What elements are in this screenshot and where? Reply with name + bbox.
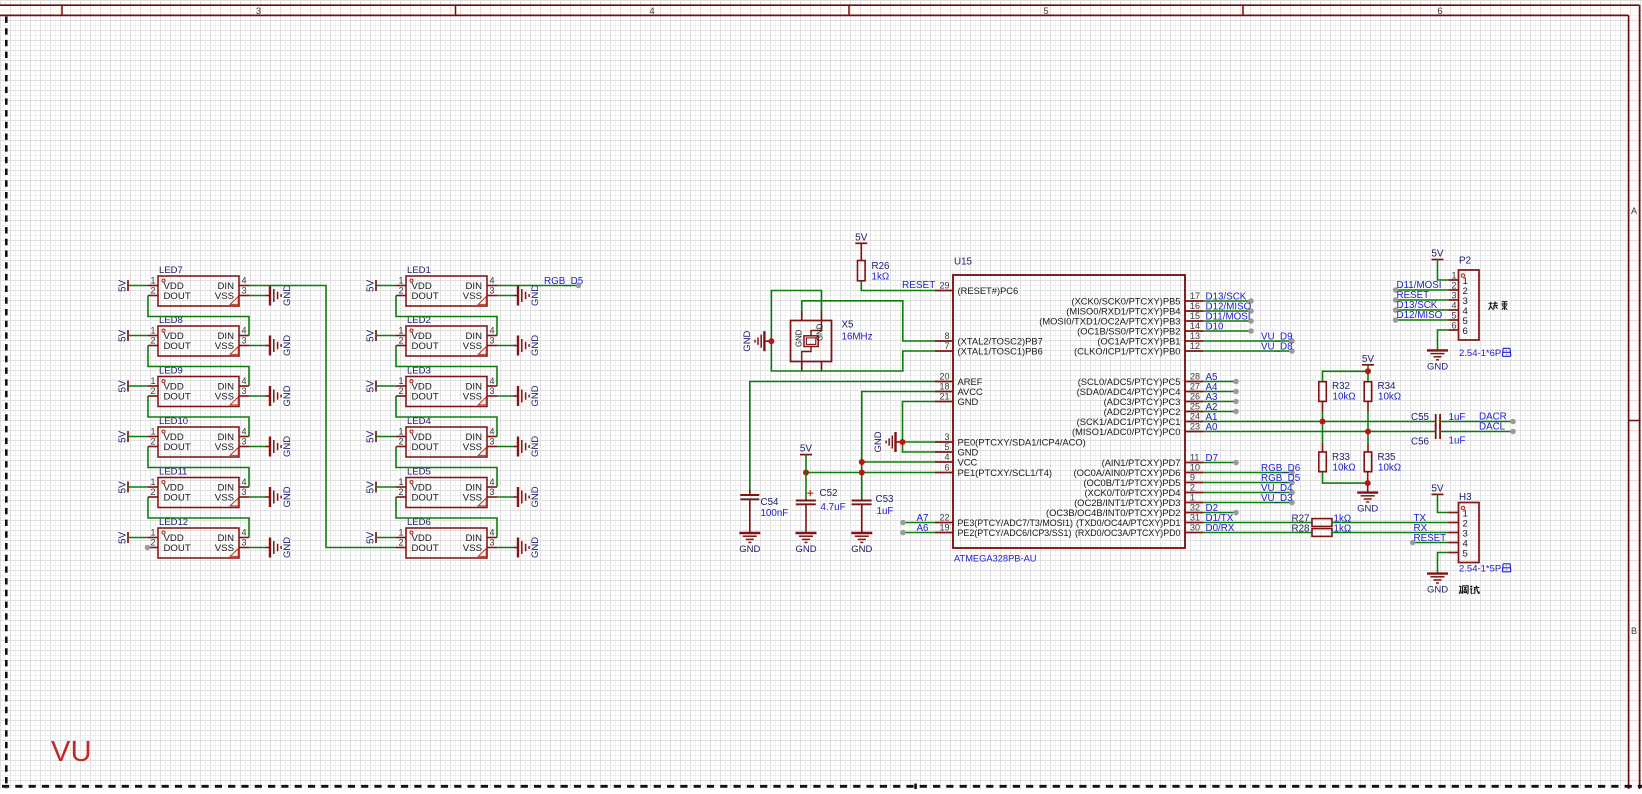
svg-text:(CLKO/ICP1/PTCXY)PB0: (CLKO/ICP1/PTCXY)PB0 (1074, 346, 1180, 356)
svg-text:2: 2 (150, 487, 155, 497)
svg-text:10kΩ: 10kΩ (1378, 392, 1401, 403)
gray dot A3 end (1233, 399, 1239, 405)
svg-text:1: 1 (150, 326, 155, 336)
svg-text:10: 10 (1190, 463, 1200, 473)
value label 2.54-1*6P-mu for P2 (1459, 348, 1511, 359)
svg-text:ATMEGA328PB-AU: ATMEGA328PB-AU (954, 554, 1037, 564)
svg-text:7: 7 (944, 341, 949, 351)
wire P2 pin6 to GND (1438, 330, 1449, 350)
U15 pin 29 (RESET#)PC6 (935, 281, 1018, 296)
value label 2.54-1*5P-mu for H3 (1459, 564, 1511, 575)
svg-text:D10: D10 (1206, 322, 1225, 333)
U15 pin 3 PE0(PTCXY/SDA1/ICP4/ACO) (935, 432, 1086, 447)
svg-text:RESET: RESET (902, 280, 935, 291)
wire net A0 from U15 pin23 to C56 (1203, 431, 1436, 433)
wire net D13/SCK (1203, 300, 1251, 302)
svg-text:VU_D3: VU_D3 (1261, 493, 1293, 504)
U15 pin 6 PE1(PTCXY/SCL1/T4) (935, 463, 1052, 478)
wire LED2 DOUT to LED3 DIN (396, 346, 497, 387)
wire 5V to LED9 VDD (128, 385, 148, 387)
svg-text:VSS: VSS (215, 392, 234, 403)
wire net A5 (1203, 381, 1236, 383)
svg-text:C52: C52 (820, 488, 838, 499)
wire 5V to LED12 VDD (128, 537, 148, 539)
wire LED1 DIN to RGB_D5 net stub (497, 285, 579, 287)
svg-text:3: 3 (242, 386, 247, 396)
svg-text:3: 3 (1451, 291, 1456, 301)
U15 pin 2 (XCK0/T0/PTCXY)PD4 (1084, 483, 1203, 498)
svg-text:VSS: VSS (463, 341, 482, 352)
svg-text:GND: GND (530, 486, 541, 507)
svg-text:3: 3 (242, 437, 247, 447)
U15 pin 23 (MISO1/ADC0/PTCY)PC0 (1072, 422, 1203, 437)
junction dot X5 gnd (768, 338, 774, 344)
svg-text:32: 32 (1190, 503, 1200, 513)
gray dot D7 end (1233, 460, 1239, 466)
svg-text:R28: R28 (1292, 524, 1311, 535)
svg-text:DOUT: DOUT (412, 543, 439, 554)
svg-text:D7: D7 (1206, 453, 1219, 464)
svg-text:(ADC3/PTCY)PC3: (ADC3/PTCY)PC3 (1104, 397, 1181, 407)
U15 pin 8 (XTAL2/TOSC2)PB7 (935, 331, 1043, 346)
svg-text:GND: GND (530, 537, 541, 558)
wire C55 to DACR (1440, 421, 1513, 423)
wire net A1 from U15 pin24 to C55 (1203, 421, 1436, 423)
wire LED1 DOUT to LED2 DIN (396, 296, 497, 336)
U15 pin 26 (ADC3/PTCY)PC3 (1104, 392, 1203, 407)
wire 5V to LED8 VDD (128, 335, 148, 337)
svg-text:DOUT: DOUT (412, 493, 439, 504)
svg-text:2: 2 (150, 286, 155, 296)
svg-text:22: 22 (939, 513, 949, 523)
wire LED2 VSS to GND (497, 345, 514, 347)
svg-text:A: A (1631, 206, 1637, 216)
svg-text:5: 5 (1451, 311, 1456, 321)
GND flag under C52 (795, 533, 816, 555)
svg-text:C55: C55 (1411, 412, 1430, 423)
connector H3 (2.54-1*5P) body (1448, 492, 1479, 563)
svg-text:10kΩ: 10kΩ (1378, 463, 1401, 474)
wire 5V to LED10 VDD (128, 436, 148, 438)
svg-text:1uF: 1uF (877, 506, 894, 517)
5V power flag above R26 (855, 232, 868, 243)
svg-text:5V: 5V (366, 329, 377, 342)
U15 pin 13 (OC1A/PTCXY)PB1 (1097, 331, 1203, 346)
GND flag for LED3 (514, 385, 542, 406)
svg-text:GND: GND (530, 285, 541, 306)
svg-text:5: 5 (1043, 6, 1048, 17)
U15 pin 10 (OC0A/AIN0/PTCXY)PD6 (1074, 463, 1203, 478)
svg-text:GND: GND (1427, 361, 1448, 372)
wire net A4 (1203, 391, 1236, 393)
svg-text:GND: GND (1427, 585, 1448, 596)
svg-text:C54: C54 (761, 497, 780, 508)
junction dot R34-A0 (1365, 429, 1371, 435)
svg-text:18: 18 (939, 382, 949, 392)
svg-text:C56: C56 (1411, 437, 1430, 448)
frame top tick x455 (455, 5, 457, 15)
gray dot RGB_D5 end (1289, 480, 1295, 486)
U15 pin 16 (MISO0/RXD1/PTCXY)PB4 (1066, 301, 1203, 316)
svg-text:DOUT: DOUT (412, 442, 439, 453)
wire LED10 VSS to GND (249, 446, 266, 448)
wire net VU_D4 (1203, 492, 1292, 494)
svg-text:DOUT: DOUT (164, 341, 191, 352)
wire 5V to LED6 VDD (376, 537, 396, 539)
svg-text:GND: GND (282, 285, 293, 306)
svg-text:1: 1 (398, 528, 403, 538)
svg-text:GND: GND (873, 431, 884, 452)
svg-text:1: 1 (398, 376, 403, 386)
svg-text:(ADC2/PTCY)PC2: (ADC2/PTCY)PC2 (1104, 407, 1181, 417)
svg-text:4: 4 (944, 452, 949, 462)
gray dot VU_D9 end (1289, 338, 1295, 344)
svg-text:5V: 5V (1431, 249, 1444, 260)
wire net D12/MISO to P2 pin5 (1396, 319, 1449, 321)
svg-text:2: 2 (398, 538, 403, 548)
resistor R35 10k (1364, 452, 1401, 474)
svg-text:3: 3 (490, 538, 495, 548)
wire LED11 DOUT to LED12 DIN (148, 497, 249, 538)
svg-text:R26: R26 (872, 261, 891, 272)
svg-text:1: 1 (398, 427, 403, 437)
svg-text:GND: GND (1357, 504, 1378, 515)
LED module LED1 (396, 265, 497, 306)
wire LED7 VSS to GND (249, 295, 266, 297)
LED module LED6 (396, 517, 497, 558)
5V power flag above H3 (1431, 483, 1444, 494)
svg-text:5V: 5V (118, 481, 129, 494)
svg-text:15: 15 (1190, 311, 1200, 321)
svg-text:P2: P2 (1459, 256, 1471, 267)
svg-text:3: 3 (490, 487, 495, 497)
wire net D13/SCK to P2 pin4 (1396, 309, 1449, 311)
svg-text:D12/MISO: D12/MISO (1397, 310, 1443, 321)
GND flag under P2 (1427, 350, 1448, 372)
svg-text:2: 2 (1190, 483, 1195, 493)
svg-text:A6: A6 (917, 523, 930, 534)
svg-text:29: 29 (939, 281, 949, 291)
gray dot A7 wire end (900, 520, 906, 526)
svg-text:(RXD0/OC3A/PTCXY)PD0: (RXD0/OC3A/PTCXY)PD0 (1075, 528, 1181, 538)
svg-text:2: 2 (398, 286, 403, 296)
wire X5 to U15 pin 8 (XTAL2) (802, 301, 935, 341)
svg-text:VSS: VSS (215, 543, 234, 554)
U15 pin 15 (MOSI0/TXD1/OC2A/PTCXY)PB3 (1039, 311, 1203, 326)
svg-text:U15: U15 (954, 257, 973, 268)
wire 5V to R32 R34 tops (1323, 365, 1369, 382)
wire net D11/MOSI (1203, 320, 1251, 322)
svg-text:GND: GND (282, 385, 293, 406)
svg-text:21: 21 (939, 392, 949, 402)
svg-text:1: 1 (150, 528, 155, 538)
5V power flag for LED9 (118, 380, 129, 393)
svg-text:3: 3 (242, 538, 247, 548)
gray dot A5 end (1233, 379, 1239, 385)
wire net RGB_D5 (1203, 482, 1292, 484)
wire LED8 VSS to GND (249, 345, 266, 347)
wire net RESET to H3 pin4 (1413, 542, 1449, 544)
svg-text:(MOSI0/TXD1/OC2A/PTCXY)PB3: (MOSI0/TXD1/OC2A/PTCXY)PB3 (1039, 316, 1180, 326)
svg-text:AVCC: AVCC (958, 387, 984, 397)
wire U15 AVCC pin18 to VCC vertical (862, 392, 935, 499)
svg-text:11: 11 (1190, 453, 1199, 463)
svg-text:GND: GND (282, 537, 293, 558)
svg-text:5V: 5V (855, 232, 868, 243)
capacitor C52 4.7uF polarized (796, 488, 846, 533)
wire 5V to H3 pin1 (1438, 494, 1449, 512)
U15 pin 7 (XTAL1/TOSC1)PB6 (935, 341, 1043, 356)
gray dot D10 end (1248, 328, 1254, 334)
sheet left dashed border (5, 17, 8, 790)
svg-text:VSS: VSS (463, 543, 482, 554)
frame right tick y420 (1629, 420, 1640, 422)
svg-text:5: 5 (1463, 549, 1468, 560)
svg-text:5V: 5V (118, 380, 129, 393)
svg-text:(SCK1/ADC1/PTCY)PC1: (SCK1/ADC1/PTCY)PC1 (1077, 417, 1181, 427)
svg-text:DOUT: DOUT (164, 493, 191, 504)
gray dot RGB_D6 end (1289, 470, 1295, 476)
svg-text:C53: C53 (876, 494, 895, 505)
wire LED9 VSS to GND (249, 395, 266, 397)
svg-text:4: 4 (490, 276, 495, 286)
svg-text:GND: GND (530, 335, 541, 356)
svg-text:5V: 5V (800, 444, 813, 455)
svg-text:3: 3 (256, 6, 261, 17)
svg-text:GND: GND (282, 486, 293, 507)
GND flag under R33 R35 (1357, 493, 1378, 515)
GND flag for LED1 (514, 285, 542, 306)
svg-text:3: 3 (242, 487, 247, 497)
wire LED3 VSS to GND (497, 395, 514, 397)
5V power flag above R32 R34 (1362, 354, 1375, 365)
LED module LED7 (148, 265, 249, 306)
svg-text:R32: R32 (1332, 381, 1350, 392)
wire H3 pin5 to GND (1438, 553, 1449, 574)
svg-text:4: 4 (490, 528, 495, 538)
svg-text:4: 4 (649, 6, 654, 17)
svg-text:17: 17 (1190, 291, 1200, 301)
svg-text:3: 3 (242, 286, 247, 296)
svg-text:2: 2 (150, 538, 155, 548)
svg-text:1: 1 (1190, 493, 1195, 503)
svg-text:VSS: VSS (215, 493, 234, 504)
5V power flag for LED12 (118, 531, 129, 544)
5V power flag for LED6 (366, 531, 377, 544)
svg-text:1: 1 (398, 477, 403, 487)
svg-text:1: 1 (150, 477, 155, 487)
U15 pin 5 GND (935, 442, 979, 457)
wire LED3 DOUT to LED4 DIN (396, 396, 497, 437)
wire U15 pin3 PE0 to gnd node (903, 441, 936, 443)
U15 pin 19 PE2(PTCY/ADC6/ICP3/SS1) (935, 523, 1071, 538)
wire R35 bottom to gnd node (1367, 472, 1369, 493)
U15 pin 27 (SDA0/ADC4/PTCY)PC4 (1077, 382, 1203, 397)
wire R34 bottom to A0 and R35 top (1367, 401, 1369, 412)
wire R32 bottom to A1 and R33 top (1322, 401, 1324, 412)
LED module LED5 (396, 467, 497, 508)
5V power flag for LED5 (366, 481, 377, 494)
wire LED8 DOUT to LED9 DIN (148, 346, 249, 387)
svg-text:GND: GND (530, 385, 541, 406)
svg-text:R34: R34 (1378, 381, 1397, 392)
crystal X5 16MHz body (791, 311, 873, 371)
svg-text:AREF: AREF (958, 377, 983, 387)
junction dot pins3/5 gnd (900, 439, 906, 445)
capacitor C54 100nF (740, 490, 788, 533)
svg-text:6: 6 (944, 463, 949, 473)
svg-text:VSS: VSS (215, 442, 234, 453)
svg-text:D0/RX: D0/RX (1206, 523, 1235, 534)
svg-text:GND: GND (958, 447, 979, 457)
svg-text:(OC0A/AIN0/PTCXY)PD6: (OC0A/AIN0/PTCXY)PD6 (1074, 468, 1181, 478)
ic U15 ATMEGA328PB-AU body (953, 257, 1185, 564)
svg-text:R33: R33 (1332, 452, 1351, 463)
LED module LED9 (148, 366, 249, 407)
svg-text:VSS: VSS (463, 392, 482, 403)
svg-text:12: 12 (1190, 341, 1200, 351)
U15 pin 1 (OC2B/INT1/PTCXY)PD3 (1074, 493, 1203, 508)
svg-text:6: 6 (1437, 6, 1442, 17)
svg-text:26: 26 (1190, 392, 1200, 402)
GND flag for LED12 (266, 537, 294, 558)
wire U15 AREF pin20 to C54 (750, 382, 935, 494)
frame inner top line (0, 14, 1629, 16)
wire net D10 (1203, 330, 1251, 332)
GND flag for LED8 (266, 335, 294, 356)
wire R26 to U15 pin 29 RESET net (861, 281, 935, 291)
gray dot A6 wire end (900, 530, 906, 536)
junction dot R33/R35 gnd (1365, 480, 1371, 486)
U15 pin 20 AREF (935, 372, 983, 387)
wire net D11/MOSI to P2 pin2 (1396, 289, 1449, 291)
svg-text:20: 20 (939, 372, 949, 382)
svg-text:GND: GND (530, 436, 541, 457)
svg-text:RESET: RESET (1414, 533, 1447, 544)
svg-text:100nF: 100nF (761, 508, 789, 519)
svg-text:2: 2 (398, 386, 403, 396)
wire net RGB_D6 (1203, 472, 1292, 474)
5V power flag for LED8 (118, 329, 129, 342)
svg-text:(OC1B/SS0/PTCXY)PB2: (OC1B/SS0/PTCXY)PB2 (1077, 326, 1180, 336)
wire net A2 (1203, 411, 1236, 413)
svg-text:A0: A0 (1206, 422, 1219, 433)
5V power flag for LED10 (118, 430, 129, 443)
wire 5V to LED4 VDD (376, 436, 396, 438)
svg-text:GND: GND (795, 329, 804, 347)
wire net A6 to U15 pin 19 (903, 532, 935, 534)
junction dot PE1/C53 node (859, 470, 865, 476)
svg-text:PE2(PTCY/ADC6/ICP3/SS1): PE2(PTCY/ADC6/ICP3/SS1) (958, 528, 1072, 538)
GND flag near X5 (742, 330, 772, 351)
gray dot RESET H3 (1410, 540, 1416, 546)
svg-text:5V: 5V (366, 279, 377, 292)
capacitor C55 1uF (1411, 412, 1465, 429)
svg-text:PE0(PTCXY/SDA1/ICP4/ACO): PE0(PTCXY/SDA1/ICP4/ACO) (958, 437, 1086, 447)
svg-text:DOUT: DOUT (412, 392, 439, 403)
svg-text:25: 25 (1190, 402, 1200, 412)
svg-text:30: 30 (1190, 523, 1200, 533)
gray dot D2 end (1233, 510, 1239, 516)
capacitor C56 1uF (1411, 424, 1465, 448)
wire net RESET to P2 pin3 (1396, 299, 1449, 301)
GND flag for LED6 (514, 537, 542, 558)
LED module LED10 (148, 416, 249, 457)
gray dot A4 end (1233, 389, 1239, 395)
resistor R26 1k (858, 261, 891, 283)
svg-text:VU_D8: VU_D8 (1261, 342, 1293, 353)
svg-text:2: 2 (150, 437, 155, 447)
resistor R32 10k (1319, 381, 1356, 403)
wire U15 pin5 GND to gnd node (903, 442, 936, 452)
svg-text:4: 4 (242, 477, 247, 487)
svg-text:VSS: VSS (463, 291, 482, 302)
GND flag for LED10 (266, 436, 294, 457)
svg-text:VSS: VSS (463, 442, 482, 453)
wire LED11 VSS to GND (249, 496, 266, 498)
svg-text:(MISO0/RXD1/PTCXY)PB4: (MISO0/RXD1/PTCXY)PB4 (1066, 306, 1180, 316)
U15 pin 21 GND (935, 392, 979, 407)
wire 5V to LED11 VDD (128, 486, 148, 488)
frame top band tint (0, 6, 1639, 15)
gray dot D13/SCK end (1248, 298, 1254, 304)
wire 5V to R34 top (1367, 371, 1369, 381)
LED module LED8 (148, 315, 249, 356)
svg-text:4: 4 (242, 427, 247, 437)
U15 pin 4 VCC (935, 452, 977, 467)
gray dot RESET P2 (1393, 297, 1399, 303)
junction dot R32-A1 (1320, 419, 1326, 425)
gray dot VU_D8 end (1289, 348, 1295, 354)
svg-text:2.54-1*5P: 2.54-1*5P (1459, 564, 1501, 575)
svg-text:GND: GND (958, 397, 979, 407)
U15 pin 9 (OC0B/T1/PTCXY)PD5 (1083, 473, 1203, 488)
wire 5V to LED3 VDD (376, 385, 396, 387)
wire R28 to H3 pin3 RX (1332, 532, 1448, 534)
svg-text:VSS: VSS (215, 291, 234, 302)
svg-text:PE3(PTCY/ADC7/T3/MOSI1): PE3(PTCY/ADC7/T3/MOSI1) (958, 518, 1073, 528)
wire LED5 VSS to GND (497, 496, 514, 498)
wire U15 pin30 D0/RX to R28 (1203, 532, 1312, 534)
U15 pin 25 (ADC2/PTCY)PC2 (1104, 402, 1203, 417)
svg-text:PE1(PTCXY/SCL1/T4): PE1(PTCXY/SCL1/T4) (958, 468, 1053, 478)
sheet bottom dashed border (2, 785, 1642, 788)
svg-text:2: 2 (398, 487, 403, 497)
wire LED10 DOUT to LED11 DIN (148, 447, 249, 488)
svg-text:1kΩ: 1kΩ (872, 272, 890, 283)
LED module LED12 (148, 517, 249, 558)
svg-text:LED7: LED7 (159, 265, 183, 276)
svg-text:2: 2 (398, 336, 403, 346)
5V power flag for LED2 (366, 329, 377, 342)
svg-text:4: 4 (242, 276, 247, 286)
wire U15 GND pin21 down to PE0 gnd node (903, 402, 936, 443)
svg-text:5V: 5V (366, 481, 377, 494)
wire LED4 DOUT to LED5 DIN (396, 447, 497, 488)
frame top tick x62 (61, 5, 63, 15)
wire LED4 VSS to GND (497, 446, 514, 448)
5V power flag for LED4 (366, 430, 377, 443)
resistor R28 1k (1292, 524, 1352, 537)
wire C56 to DACL (1440, 431, 1513, 433)
chinese annotation shaolu (programming) (1489, 302, 1508, 310)
wire net D2 (1203, 512, 1236, 514)
svg-text:VSS: VSS (463, 493, 482, 504)
svg-text:5: 5 (944, 442, 949, 452)
LED module LED4 (396, 416, 497, 457)
wire LED1 VSS to GND (497, 295, 514, 297)
svg-text:(XCK0/T0/PTCXY)PD4: (XCK0/T0/PTCXY)PD4 (1084, 488, 1180, 498)
